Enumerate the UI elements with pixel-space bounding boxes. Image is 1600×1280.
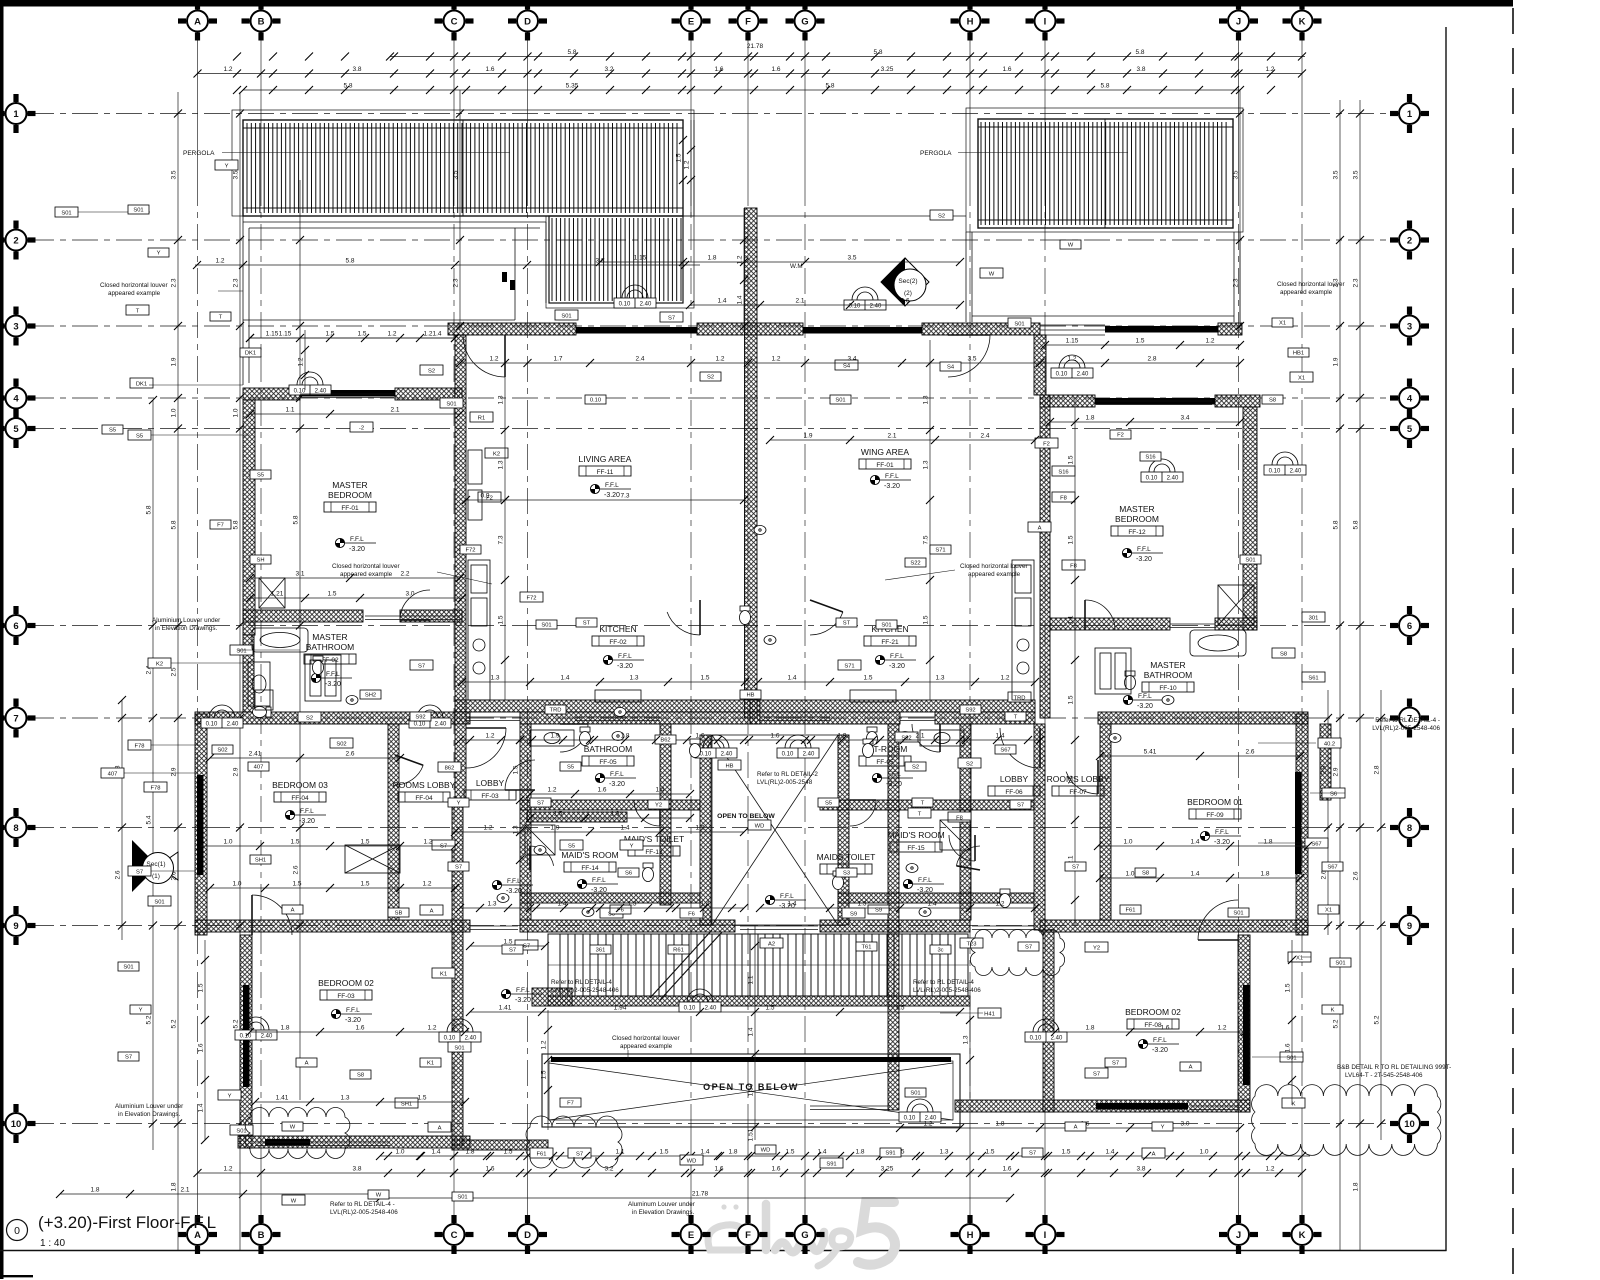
svg-text:5.2: 5.2 — [171, 1019, 178, 1028]
svg-text:2.3: 2.3 — [1233, 278, 1240, 287]
svg-text:D: D — [524, 1230, 531, 1241]
window bed02L left — [243, 985, 250, 1087]
svg-text:-3.20: -3.20 — [345, 1017, 361, 1024]
svg-text:C: C — [451, 1230, 458, 1241]
bottom overall dim line — [380, 1197, 1010, 1199]
svg-text:1.5: 1.5 — [985, 1149, 994, 1156]
svg-text:1.0: 1.0 — [233, 408, 240, 417]
svg-text:1.2: 1.2 — [489, 356, 498, 363]
shower bathL — [525, 825, 555, 855]
svg-text:2.6: 2.6 — [345, 751, 354, 758]
svg-text:S01: S01 — [1245, 557, 1255, 563]
wall partition v5 — [888, 724, 899, 1110]
svg-text:F.F.L: F.F.L — [890, 653, 904, 660]
svg-text:F72: F72 — [466, 547, 476, 553]
svg-text:1.2: 1.2 — [1067, 356, 1076, 363]
wall entry top — [697, 323, 803, 335]
svg-text:1.4: 1.4 — [787, 901, 796, 908]
svg-text:-3.20: -3.20 — [886, 781, 902, 788]
svg-text:1.4: 1.4 — [700, 1149, 709, 1156]
dim row top left terr — [250, 337, 455, 339]
window living top — [576, 327, 697, 334]
grid bubble 8 left — [0, 808, 36, 847]
svg-text:DK1: DK1 — [136, 381, 147, 387]
grid bubble J top — [1219, 2, 1258, 41]
wall midband top 5 — [1098, 712, 1308, 724]
svg-text:F.F.L: F.F.L — [1137, 546, 1151, 553]
wall dining top — [922, 323, 1040, 335]
svg-text:21.78: 21.78 — [692, 1191, 709, 1198]
right dim column 4 — [1380, 690, 1382, 1140]
svg-text:2.4: 2.4 — [980, 433, 989, 440]
svg-text:BEDROOM: BEDROOM — [1115, 514, 1159, 524]
svg-text:3.5: 3.5 — [1353, 170, 1360, 179]
svg-text:-3.20: -3.20 — [1214, 839, 1230, 846]
svg-text:1.4: 1.4 — [717, 298, 726, 305]
svg-text:1.5: 1.5 — [1068, 775, 1075, 784]
svg-text:5.2: 5.2 — [146, 1015, 153, 1024]
svg-text:SB: SB — [395, 910, 403, 916]
svg-text:LOBBY: LOBBY — [476, 778, 505, 788]
svg-text:5.8: 5.8 — [171, 520, 178, 529]
svg-text:S22: S22 — [910, 560, 920, 566]
dim col center top — [682, 120, 684, 216]
door arc 6 — [1000, 728, 1040, 768]
pergola right mid rails — [978, 119, 1233, 228]
ffl bedroom02 R — [1138, 1037, 1179, 1054]
svg-text:K2: K2 — [156, 661, 163, 667]
ffl master bath R — [1123, 693, 1164, 710]
svg-text:1.2: 1.2 — [684, 160, 691, 169]
revision cloud left — [245, 1108, 350, 1159]
grid bubble C bottom — [435, 1215, 474, 1254]
room kitchen R — [864, 624, 916, 646]
svg-text:S4: S4 — [843, 363, 851, 369]
note refer stairs R — [913, 979, 981, 994]
svg-text:1.8: 1.8 — [855, 1149, 864, 1156]
wall master R top b — [1215, 395, 1260, 407]
svg-text:LVL(RL)2-005-2548-406: LVL(RL)2-005-2548-406 — [330, 1209, 398, 1216]
ffl stairs lower — [501, 987, 542, 1004]
svg-text:1.3: 1.3 — [923, 460, 930, 469]
door arc 9 — [252, 895, 292, 935]
grid bubble E top — [672, 2, 711, 41]
svg-text:1.6: 1.6 — [771, 66, 780, 73]
dim row masterL upper — [250, 337, 455, 339]
grid bubble 3 right — [1390, 307, 1429, 346]
svg-text:0.10: 0.10 — [904, 1116, 916, 1122]
svg-text:T61: T61 — [862, 944, 872, 950]
wall bed02L left — [240, 935, 252, 1148]
svg-text:1.9: 1.9 — [171, 357, 178, 366]
window sill lines — [255, 394, 1238, 1149]
svg-text:A2: A2 — [768, 941, 775, 947]
svg-text:2.2: 2.2 — [400, 571, 409, 578]
svg-text:F.F.L: F.F.L — [1215, 829, 1229, 836]
left dim column 3 — [177, 92, 179, 1250]
svg-text:FF-02: FF-02 — [609, 639, 627, 646]
svg-text:1.6: 1.6 — [1285, 1043, 1292, 1052]
svg-text:1.4: 1.4 — [787, 675, 796, 682]
wall midband top 4 — [935, 712, 1035, 724]
svg-text:862: 862 — [445, 765, 455, 771]
svg-text:301: 301 — [1309, 615, 1319, 621]
svg-text:T: T — [219, 314, 223, 320]
window bed02L bottom — [265, 1139, 310, 1146]
svg-text:S2: S2 — [912, 764, 919, 770]
svg-text:1.3: 1.3 — [487, 901, 496, 908]
svg-text:HB: HB — [746, 692, 754, 698]
svg-text:1.5: 1.5 — [360, 881, 369, 888]
svg-text:MASTER: MASTER — [332, 480, 367, 490]
pergola left label — [183, 150, 510, 157]
svg-text:2.40: 2.40 — [465, 1036, 477, 1042]
svg-text:1.15: 1.15 — [279, 331, 292, 338]
svg-text:S01: S01 — [457, 1194, 467, 1200]
tub masterR — [1190, 630, 1246, 656]
svg-text:F.F.L: F.F.L — [780, 893, 794, 900]
svg-text:1.2: 1.2 — [427, 1025, 436, 1032]
grid bubble I top — [1026, 2, 1065, 41]
room bedroom02 R — [1125, 1007, 1181, 1029]
svg-text:K2: K2 — [493, 451, 500, 457]
wall right wing top corner — [1218, 323, 1242, 335]
pergola left slats — [247, 123, 677, 213]
section marker 2 top — [881, 258, 929, 306]
grid bubble 6 left — [0, 606, 36, 645]
grid bubble 4 left — [0, 379, 36, 418]
svg-text:(2): (2) — [904, 290, 912, 297]
left dim column 4 — [239, 92, 241, 1250]
svg-text:3c: 3c — [937, 947, 943, 953]
dim row terrace top — [195, 264, 700, 266]
grid bubble C top — [435, 2, 474, 41]
svg-text:S01: S01 — [1335, 960, 1345, 966]
ffl kitchen L — [603, 653, 644, 670]
svg-text:5.41: 5.41 — [1144, 749, 1157, 756]
note refer right margin — [1337, 1064, 1451, 1079]
top dimension row 1 — [390, 56, 1305, 58]
wall bed02L bottom — [238, 1136, 470, 1148]
svg-text:2.40: 2.40 — [315, 389, 327, 395]
svg-text:1.0: 1.0 — [395, 1149, 404, 1156]
grid bubble K top — [1283, 2, 1322, 41]
wall outer right master — [1243, 407, 1257, 630]
svg-text:FF-09: FF-09 — [1206, 812, 1224, 819]
svg-text:2.40: 2.40 — [870, 304, 882, 310]
dim row maids — [455, 831, 744, 833]
svg-text:1.0: 1.0 — [1123, 839, 1132, 846]
grid bubble H bottom — [951, 1215, 990, 1254]
svg-text:FF-05: FF-05 — [599, 759, 617, 766]
room maids room R — [887, 830, 944, 852]
svg-text:appeared example: appeared example — [340, 571, 393, 578]
wd symbol 3 — [844, 287, 886, 310]
svg-text:OPEN TO BELOW: OPEN TO BELOW — [717, 813, 775, 820]
svg-text:1.0: 1.0 — [232, 881, 241, 888]
note refer lightwell — [757, 771, 818, 786]
grid bubble 2 right — [1390, 221, 1429, 260]
svg-text:T: T — [918, 811, 922, 817]
dim row maid low — [460, 907, 744, 909]
svg-text:F7: F7 — [567, 1100, 574, 1106]
grid bubble B top — [242, 2, 281, 41]
dim row bed01 mid — [1098, 845, 1308, 847]
svg-text:1.51: 1.51 — [748, 1128, 755, 1141]
svg-text:PERGOLA: PERGOLA — [183, 150, 215, 157]
svg-text:-3.20: -3.20 — [884, 483, 900, 490]
svg-text:BATHROOM: BATHROOM — [584, 744, 632, 754]
svg-text:PERGOLA: PERGOLA — [920, 150, 952, 157]
svg-text:FF-01: FF-01 — [341, 505, 359, 512]
svg-text:0.10: 0.10 — [206, 722, 218, 728]
svg-text:E: E — [688, 1230, 694, 1241]
door arc 18 — [395, 755, 423, 785]
svg-text:ROOMS LOBBY: ROOMS LOBBY — [393, 780, 456, 790]
svg-text:S7: S7 — [537, 800, 544, 806]
svg-text:R61: R61 — [673, 947, 684, 953]
svg-text:S02: S02 — [336, 741, 346, 747]
window sill right top — [1040, 325, 1105, 335]
terrace left outline — [243, 216, 546, 385]
wall partition v6 — [960, 724, 971, 920]
svg-text:7.5: 7.5 — [923, 535, 930, 544]
svg-text:W: W — [1068, 242, 1074, 248]
svg-text:1.6: 1.6 — [198, 1043, 205, 1052]
svg-text:1.2: 1.2 — [995, 901, 1004, 908]
room master bedroom R — [1111, 504, 1163, 536]
svg-text:S92: S92 — [415, 714, 425, 720]
svg-text:T: T — [921, 800, 925, 806]
wall central spine — [745, 208, 758, 718]
svg-text:W: W — [290, 1124, 296, 1130]
wall partition v2 — [660, 724, 671, 905]
wd symbol 12 — [899, 1099, 941, 1122]
svg-text:LVL(RL)2-005-2548: LVL(RL)2-005-2548 — [757, 779, 813, 786]
svg-text:S6: S6 — [625, 870, 632, 876]
svg-text:3.2: 3.2 — [604, 66, 613, 73]
svg-text:1.3: 1.3 — [513, 825, 520, 834]
room living area — [579, 454, 632, 476]
wd symbol lightwell b — [777, 735, 819, 758]
grid bubble 4 right — [1390, 379, 1429, 418]
svg-text:-3.20: -3.20 — [591, 887, 607, 894]
svg-text:F61: F61 — [1126, 907, 1136, 913]
svg-text:S4: S4 — [947, 364, 955, 370]
door arc 5 — [466, 728, 506, 768]
svg-text:4: 4 — [1407, 393, 1413, 404]
door arc 17 — [1066, 760, 1098, 794]
grid bubble 10 right — [1390, 1104, 1429, 1143]
svg-text:5.8: 5.8 — [293, 515, 300, 524]
door arc 15 — [530, 846, 554, 870]
grid bubble 2 left — [0, 221, 36, 260]
svg-text:2: 2 — [13, 235, 18, 246]
svg-text:3: 3 — [13, 321, 18, 332]
svg-text:F.F.L: F.F.L — [885, 473, 899, 480]
grid bubble 8 right — [1390, 808, 1429, 847]
door arc 8 — [912, 724, 940, 752]
svg-text:5.35: 5.35 — [566, 83, 579, 90]
svg-text:I: I — [1044, 1230, 1047, 1241]
svg-text:3: 3 — [1407, 321, 1412, 332]
svg-text:2.40: 2.40 — [803, 752, 815, 758]
svg-text:S71: S71 — [935, 547, 945, 553]
svg-text:S01: S01 — [835, 397, 845, 403]
svg-text:2.40: 2.40 — [1167, 476, 1179, 482]
pergola right slats — [981, 122, 1226, 225]
svg-text:1.8: 1.8 — [1260, 871, 1269, 878]
open to below bottom — [542, 1054, 960, 1127]
svg-text:2.9: 2.9 — [233, 767, 240, 776]
svg-text:SH: SH — [256, 557, 264, 563]
fixture wc 19 — [740, 606, 751, 625]
room kitchen L — [592, 624, 644, 646]
svg-text:-3.20: -3.20 — [604, 492, 620, 499]
window right wing top — [1105, 326, 1218, 333]
svg-text:S7: S7 — [509, 947, 516, 953]
svg-text:S8: S8 — [1142, 870, 1149, 876]
grid bubble 7 left — [0, 699, 36, 738]
svg-text:appeared example: appeared example — [1280, 289, 1333, 296]
right dim column 1 — [1327, 690, 1329, 935]
svg-text:S7: S7 — [523, 943, 530, 949]
svg-text:MAID'S ROOM: MAID'S ROOM — [887, 830, 944, 840]
svg-text:1.6: 1.6 — [695, 733, 704, 740]
svg-text:S5: S5 — [257, 472, 264, 478]
svg-text:3.4: 3.4 — [847, 356, 856, 363]
svg-text:40.2: 40.2 — [1324, 741, 1335, 747]
svg-text:S67: S67 — [1311, 841, 1321, 847]
wall partition v1 — [520, 724, 531, 920]
svg-text:F.F.L: F.F.L — [918, 877, 932, 884]
door arc 7 — [560, 724, 588, 752]
svg-text:Y2: Y2 — [1093, 945, 1100, 951]
svg-text:0.10: 0.10 — [294, 389, 306, 395]
svg-text:1.6: 1.6 — [770, 733, 779, 740]
svg-text:FF-06: FF-06 — [1005, 789, 1023, 796]
svg-text:0.10: 0.10 — [1146, 476, 1158, 482]
note aluminum left — [115, 1103, 183, 1118]
pergola left frame — [243, 120, 683, 216]
svg-text:0.10: 0.10 — [782, 752, 794, 758]
svg-text:5.4: 5.4 — [146, 815, 153, 824]
svg-text:1.5: 1.5 — [765, 1005, 774, 1012]
dim row living top — [460, 362, 1240, 364]
svg-text:S67: S67 — [1000, 747, 1010, 753]
svg-text:S01: S01 — [236, 648, 246, 654]
svg-text:B62: B62 — [660, 737, 670, 743]
pergola left lower frame — [549, 216, 683, 303]
svg-text:2.41: 2.41 — [249, 751, 262, 758]
dim col stairsL — [547, 1010, 549, 1130]
dim col living E — [504, 340, 506, 700]
ffl living — [590, 482, 631, 499]
wall partition h2 — [820, 800, 1034, 810]
svg-text:1.5: 1.5 — [541, 1070, 548, 1079]
svg-text:1.3: 1.3 — [340, 1095, 349, 1102]
svg-text:1.5: 1.5 — [357, 331, 366, 338]
svg-text:2.40: 2.40 — [705, 1006, 717, 1012]
dim row bed level — [250, 577, 460, 579]
svg-text:S6: S6 — [1330, 791, 1337, 797]
svg-text:5.8: 5.8 — [873, 49, 882, 56]
svg-text:1.4: 1.4 — [748, 1027, 755, 1036]
svg-text:2.9: 2.9 — [171, 767, 178, 776]
svg-text:2.40: 2.40 — [435, 722, 447, 728]
bottom dimension row 1 — [380, 1155, 1310, 1157]
svg-text:X1: X1 — [1279, 320, 1286, 326]
svg-text:F.F.L: F.F.L — [1153, 1037, 1167, 1044]
svg-text:S01: S01 — [541, 622, 551, 628]
svg-text:1.21: 1.21 — [271, 591, 284, 598]
wall partition v12 — [455, 712, 466, 800]
svg-text:1.2: 1.2 — [1265, 66, 1274, 73]
svg-text:1.2: 1.2 — [298, 357, 305, 366]
svg-text:1.2: 1.2 — [485, 733, 494, 740]
dim row bed02L low — [255, 1101, 465, 1103]
grid bubble I bottom — [1026, 1215, 1065, 1254]
svg-text:1.2: 1.2 — [1205, 338, 1214, 345]
fixture basin extra1 — [582, 908, 594, 917]
svg-text:3.5: 3.5 — [967, 356, 976, 363]
dim row master R — [1050, 421, 1240, 423]
svg-text:1.2: 1.2 — [695, 825, 704, 832]
svg-text:2: 2 — [1407, 235, 1412, 246]
svg-text:3.5: 3.5 — [847, 255, 856, 262]
svg-text:-3.20: -3.20 — [325, 681, 341, 688]
svg-text:1.3: 1.3 — [857, 901, 866, 908]
svg-text:1.2: 1.2 — [715, 356, 724, 363]
room master bath R — [1142, 660, 1194, 692]
top border bar — [0, 0, 1513, 7]
wall kitchen L bottom — [455, 700, 760, 712]
wall partition h3 — [520, 893, 700, 903]
svg-text:1.6: 1.6 — [485, 1166, 494, 1173]
ffl kitchen R — [875, 653, 916, 670]
svg-text:S01: S01 — [1233, 910, 1243, 916]
vanity bathR — [920, 730, 964, 746]
svg-text:1.8: 1.8 — [995, 1121, 1004, 1128]
door arc 13 — [634, 800, 660, 826]
stair left block — [532, 988, 572, 1006]
svg-text:3.5: 3.5 — [233, 170, 240, 179]
svg-text:10: 10 — [11, 1119, 22, 1130]
wall master R left — [1040, 395, 1050, 718]
wall midband bot 2 — [520, 920, 735, 932]
svg-text:2.9: 2.9 — [1333, 767, 1340, 776]
wall kitchen R bottom — [750, 700, 1035, 712]
svg-text:FF-03: FF-03 — [337, 993, 355, 1000]
svg-text:-2: -2 — [359, 425, 364, 431]
svg-text:5: 5 — [13, 424, 19, 435]
svg-text:-3.20: -3.20 — [1137, 703, 1153, 710]
svg-text:1.3: 1.3 — [498, 395, 505, 404]
room maids room L — [561, 850, 618, 872]
svg-text:S01: S01 — [61, 210, 71, 216]
svg-text:F78: F78 — [135, 743, 145, 749]
svg-text:21.78: 21.78 — [747, 43, 764, 50]
svg-text:J: J — [1236, 1230, 1241, 1241]
note louver top right — [1277, 281, 1345, 296]
room rooms lobby R — [1047, 774, 1110, 796]
revision cloud mid — [970, 930, 1064, 976]
wall midband bot 3 — [820, 920, 970, 932]
svg-text:S01: S01 — [910, 1090, 920, 1096]
svg-text:1.2: 1.2 — [387, 331, 396, 338]
svg-text:A: A — [1152, 1151, 1156, 1157]
svg-text:Aluminium Louver under: Aluminium Louver under — [152, 617, 220, 624]
